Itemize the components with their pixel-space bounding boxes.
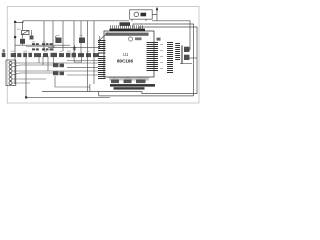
wire stubs chip to header <box>160 45 163 69</box>
transceiver Q4 <box>60 72 65 76</box>
node dot x15 y37 <box>14 36 16 38</box>
capacitor C osc <box>141 13 147 17</box>
wire (vertical x=89.9 to bottom bus) <box>89 84 91 92</box>
wire (top bus drop x=87.5) <box>87 21 89 92</box>
oscillator box Y1 <box>130 10 153 19</box>
wire (Q out row to chip y=60.5) <box>67 60 98 62</box>
J1 pin circles <box>9 62 12 85</box>
wire (vertical drop x=48 to rows) <box>47 56 49 71</box>
wire (stub into caps y=58) <box>189 57 197 59</box>
wire (right bus y=24) <box>133 24 194 96</box>
optocoupler U2 <box>30 30 34 40</box>
wire (U jog below C5) <box>74 52 81 62</box>
chip inner circle mark <box>129 37 133 41</box>
wire (top bus drop x=94) <box>93 21 95 84</box>
wire (top bus drop x=81) <box>80 21 82 56</box>
wire (top bus drop x=74) <box>73 21 75 56</box>
connector J1 (left, round pins) <box>6 60 16 86</box>
resistor pack RP4 (right striped column) <box>175 44 180 60</box>
wire (J1 row 6) <box>12 82 30 84</box>
wire (osc box to vcc x=157) <box>152 7 158 21</box>
chip label U1 <box>123 52 129 57</box>
wire (bottom wire from connector x=26) <box>25 57 110 99</box>
resistor pack RP1 (below chip, glyph row) <box>111 80 146 84</box>
wire (bottom bus y=91.5) <box>42 91 142 93</box>
faint label smudges <box>11 29 143 79</box>
transistor Q6 <box>56 36 62 43</box>
header JP1 (right side pin strip) <box>167 43 173 73</box>
chip bottom pin row <box>110 77 148 81</box>
chip inner small marks <box>135 37 142 40</box>
wire (vertical drop x=43 to rows) <box>42 56 44 65</box>
wire (top bus drop x=53) <box>52 21 54 51</box>
wire (cluster bottom link) <box>180 63 192 65</box>
transistor Q5 <box>20 39 25 44</box>
wire (right bus y=27) <box>139 27 197 94</box>
chip right pin column <box>147 43 159 71</box>
capacitor C12 (right) <box>184 55 189 60</box>
transceiver Q1 <box>53 63 59 67</box>
wire (Q out row to chip y=67.3) <box>67 66 98 68</box>
resistor row A (R1 R2 R3) <box>32 43 53 45</box>
label mark right of chip top <box>157 38 161 41</box>
wire (diagonal at chip top-left) <box>98 33 108 42</box>
svg-text:80C196: 80C196 <box>117 59 134 64</box>
wire (bottom bus y=95.9) <box>99 92 194 96</box>
wire (horizontal y=47.6) <box>48 47 100 49</box>
capacitor C11 (right) <box>184 47 189 52</box>
wire (J1 row 1) <box>12 62 98 64</box>
capacitor C5 <box>73 46 76 52</box>
chip label 80C196 <box>117 59 134 64</box>
chip top inner label row <box>106 33 149 36</box>
border frame <box>7 6 199 103</box>
chip left pin column <box>98 41 106 79</box>
op-amp U1 80C196 chip body <box>104 31 154 77</box>
capacitor cluster C7 C8 <box>120 22 131 26</box>
wire (transceiver ground rail y=87) <box>55 76 90 87</box>
wire (horizontal y=45.2) <box>15 44 70 46</box>
wire (vertical bar x=182) <box>181 45 183 64</box>
crystal circle <box>134 12 139 17</box>
svg-text:U1: U1 <box>123 52 129 57</box>
wire (right vertical x=190 into header) <box>184 49 190 51</box>
wire (top bus drop x=44) <box>43 21 45 51</box>
wire (top bus y=21) <box>15 21 190 50</box>
transceiver Q3 <box>53 71 59 75</box>
wire (osc feet) <box>132 19 146 21</box>
wire (vertical x=99.6) <box>99 36 101 48</box>
wire (top bus drop x=63) <box>62 21 64 51</box>
wire (vertical drop x=39 to rows) <box>38 56 40 63</box>
wire (row link y=46.8) <box>26 46 55 48</box>
node A (junction dot top-left) <box>14 21 16 23</box>
resistor network bar RP2 <box>110 84 155 87</box>
wire (Q out row to chip y=75) <box>67 74 98 76</box>
chip top pin row <box>110 25 146 31</box>
resistor row B (R4 R5 R6) <box>32 48 53 50</box>
transistor Q7 <box>79 38 85 44</box>
wire (J1 row 2) <box>12 65 55 67</box>
component row capacitors y=52 <box>2 49 99 57</box>
wire (J1 row 3) <box>12 70 98 72</box>
wire (x=22 from top) <box>22 21 24 45</box>
transceiver Q2 <box>60 64 65 68</box>
wire (J1 row 5) <box>12 78 46 80</box>
wire (J1 row 4) <box>12 73 55 75</box>
wire (vertical drop x=53.6 to rows) <box>53 56 55 63</box>
wire (left vertical bus x=15) <box>14 22 16 84</box>
resistor network bar RP3 <box>114 87 145 89</box>
diode D1 (top-left block) <box>22 30 30 34</box>
